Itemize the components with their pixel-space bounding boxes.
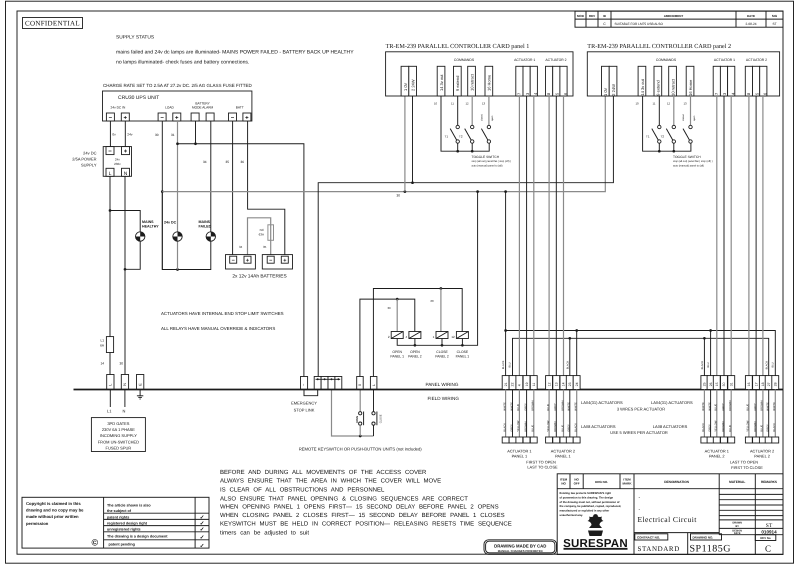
card2 pin 9 extend	[654, 66, 662, 96]
svg-text:PANEL 2: PANEL 2	[435, 355, 449, 359]
svg-text:BROWN: BROWN	[761, 400, 764, 410]
svg-text:CLOSE: CLOSE	[457, 350, 469, 354]
svg-text:HEALTHY: HEALTHY	[142, 225, 159, 229]
svg-text:LAST TO OPEN: LAST TO OPEN	[730, 460, 758, 465]
wire R4 coil bottom	[461, 339, 463, 346]
svg-text:L1: L1	[100, 339, 104, 343]
svg-text:GREY: GREY	[708, 424, 711, 432]
svg-text:12: 12	[451, 335, 455, 339]
svg-text:LAST TO CLOSE: LAST TO CLOSE	[527, 465, 558, 470]
svg-text:BLACK: BLACK	[702, 423, 705, 432]
svg-text:DRAWING MADE BY CAD: DRAWING MADE BY CAD	[494, 543, 546, 548]
lamp return rail left	[125, 241, 140, 269]
svg-text:BLU: BLU	[509, 362, 512, 367]
svg-text:36: 36	[241, 160, 245, 164]
svg-text:24v DC: 24v DC	[83, 151, 96, 156]
svg-text:✓: ✓	[200, 521, 205, 527]
svg-text:12: 12	[547, 382, 551, 386]
svg-text:DRG NO.: DRG NO.	[595, 480, 608, 484]
svg-text:24v DC IN: 24v DC IN	[111, 106, 126, 110]
svg-text:closed: closed	[682, 113, 685, 121]
svg-text:14 3v out: 14 3v out	[439, 74, 444, 91]
svg-text:WHITE: WHITE	[773, 402, 776, 411]
wire R3 coil top	[440, 289, 442, 332]
svg-text:Electrical Circuit: Electrical Circuit	[638, 515, 698, 524]
node LOAD- / 0V bus	[161, 190, 164, 193]
svg-text:2-08-24: 2-08-24	[746, 22, 757, 26]
svg-text:11: 11	[451, 102, 454, 106]
relay R4 CLOSE PANEL 1	[451, 332, 469, 359]
svg-text:WHITE: WHITE	[767, 402, 770, 411]
svg-text:−: −	[231, 116, 235, 122]
svg-text:30: 30	[120, 362, 124, 366]
incoming supply note box	[91, 418, 145, 452]
node R4 common	[461, 344, 464, 347]
svg-text:FROM UN-SWITCHED: FROM UN-SWITCHED	[98, 439, 139, 444]
earth symbol	[137, 390, 143, 400]
terminal group 1 field wires	[505, 390, 507, 438]
wire alarm2 down to lamp	[210, 121, 212, 232]
relay rail 2	[360, 299, 415, 376]
svg-text:MOD: MOD	[577, 14, 585, 18]
svg-text:13: 13	[555, 382, 559, 386]
node line2 feed on bus	[504, 190, 507, 193]
svg-text:STANDARD: STANDARD	[638, 545, 680, 553]
terminal group 2 connector	[546, 437, 553, 443]
card1 act1 pin 3	[523, 66, 530, 96]
svg-text:Copyright is claimed in this: Copyright is claimed in this	[26, 501, 81, 506]
svg-text:16 Home: 16 Home	[688, 79, 693, 96]
svg-text:PANEL 2: PANEL 2	[408, 355, 422, 359]
CAD stamp	[484, 540, 557, 555]
drawing no cell	[691, 534, 722, 540]
card1 pin 14 3v out	[437, 66, 445, 96]
svg-text:MAINS: MAINS	[142, 220, 154, 224]
svg-text:GREY: GREY	[510, 424, 513, 432]
svg-text:30: 30	[397, 194, 401, 198]
svg-text:BLACK: BLACK	[503, 423, 506, 432]
svg-text:WHEN OPENING PANEL 1 OPENS FIR: WHEN OPENING PANEL 1 OPENS FIRST— 15 SEC…	[220, 503, 499, 510]
terminal group 4 connector	[745, 437, 752, 443]
svg-text:+: +	[246, 258, 249, 264]
wire branch to mains-healthy lamp	[110, 211, 140, 232]
svg-text:L: L	[109, 171, 112, 177]
svg-text:34: 34	[239, 245, 243, 249]
svg-text:N: N	[123, 383, 127, 386]
wire BATT + down jog to battery	[248, 121, 285, 255]
node relay common on bus	[476, 190, 479, 193]
ES block jumper bar	[316, 378, 341, 380]
svg-text:CONTRACT NO.: CONTRACT NO.	[637, 536, 660, 540]
wire card1 24W	[412, 96, 414, 183]
svg-text:L1: L1	[107, 409, 112, 414]
svg-text:T1: T1	[445, 135, 449, 139]
svg-text:23: 23	[568, 382, 572, 386]
svg-text:FUSED SPUR: FUSED SPUR	[106, 446, 132, 451]
svg-text:ACTUATOR 2: ACTUATOR 2	[545, 58, 566, 62]
keyswitch terminal A	[357, 377, 364, 390]
svg-text:63A: 63A	[259, 233, 264, 237]
svg-text:22: 22	[511, 382, 515, 386]
svg-text:9 extend: 9 extend	[455, 76, 460, 91]
svg-text:17: 17	[754, 382, 758, 386]
svg-text:−: −	[109, 116, 113, 122]
card2 act1 pin 4	[728, 66, 736, 96]
svg-text:BLACK: BLACK	[575, 423, 578, 432]
svg-text:11: 11	[653, 102, 656, 106]
svg-text:GREY: GREY	[524, 403, 527, 411]
keyswitch terminal B	[370, 377, 377, 390]
card1 act1 pin 7	[516, 66, 523, 96]
lamp H1 MAINS HEALTHY	[136, 220, 160, 241]
svg-text:OFF: OFF	[574, 482, 580, 486]
card1 pin 2 24W	[409, 66, 417, 96]
node alarm1	[194, 142, 197, 145]
svg-text:12: 12	[667, 102, 671, 106]
svg-text:COMMANDS: COMMANDS	[656, 58, 677, 62]
node line1 group2	[575, 329, 578, 332]
card2 pin 10 retract	[669, 66, 677, 96]
svg-text:OPEN: OPEN	[392, 350, 402, 354]
node N at lamp return	[124, 268, 127, 271]
svg-text:BLACK: BLACK	[566, 361, 569, 370]
node line2 group2	[568, 337, 571, 340]
card2 pin 2 24W	[609, 66, 617, 96]
node card1 24W on bus	[411, 181, 414, 184]
svg-text:MANUAL CHANGES PROHIBITED: MANUAL CHANGES PROHIBITED	[498, 549, 543, 553]
actuator wires card2 act2	[748, 96, 750, 377]
svg-text:11: 11	[532, 383, 536, 387]
svg-text:the company, be published, cop: the company, be published, copied, repro…	[560, 505, 622, 508]
PSU terminal N	[122, 168, 130, 177]
relay R3 CLOSE PANEL 2	[433, 332, 449, 359]
svg-text:14: 14	[562, 382, 566, 386]
safety paragraph	[220, 469, 512, 537]
svg-text:SUPPLY STATUS: SUPPLY STATUS	[116, 35, 154, 41]
keyswitch KS2	[372, 390, 383, 437]
L1 fuse F1	[106, 337, 113, 353]
svg-text:of possession to this drawing.: of possession to this drawing. The desig…	[560, 496, 614, 499]
wire LOAD - down	[161, 121, 163, 270]
svg-text:IS CLEAR OF ALL OBSTRUCTIONS A: IS CLEAR OF ALL OBSTRUCTIONS AND PERSONN…	[220, 486, 385, 493]
svg-text:10 retract: 10 retract	[670, 78, 675, 96]
svg-text:WHITE: WHITE	[568, 402, 571, 411]
svg-text:The article shown is also: The article shown is also	[107, 504, 151, 508]
terminal group 2 field wires	[548, 390, 550, 438]
svg-text:10: 10	[636, 102, 640, 106]
svg-text:3 WIRES PER ACTUATOR: 3 WIRES PER ACTUATOR	[617, 407, 665, 412]
svg-text:−: −	[269, 258, 272, 264]
svg-text:PANEL 2: PANEL 2	[709, 453, 725, 458]
svg-text:timers can be adjusted to suit: timers can be adjusted to suit	[220, 530, 309, 537]
terminal group 3 connector	[701, 437, 708, 443]
svg-text:BLACK: BLACK	[701, 361, 704, 370]
svg-text:230V 6A 1 PHASE: 230V 6A 1 PHASE	[102, 427, 135, 432]
wire L fuse to terminal	[109, 353, 111, 375]
svg-text:39: 39	[388, 306, 392, 310]
svg-text:25: 25	[703, 382, 707, 386]
actuator wires card2 act1	[716, 96, 718, 377]
svg-text:15: 15	[715, 382, 719, 386]
PSU terminal L	[106, 168, 114, 177]
svg-text:−: −	[108, 149, 112, 155]
svg-text:REV: REV	[589, 14, 595, 18]
card1 act2 pin 6	[560, 66, 568, 96]
card1 pin 9 extend	[454, 66, 462, 96]
svg-text:18: 18	[761, 382, 765, 386]
node keyswitch return	[359, 435, 362, 438]
svg-text:no lamps illuminated- check fu: no lamps illuminated- check fuses and ba…	[116, 60, 249, 66]
svg-text:TR-EM-239 PARALLEL CONTROLLER: TR-EM-239 PARALLEL CONTROLLER CARD panel…	[587, 43, 731, 50]
svg-text:DATE: DATE	[734, 532, 741, 535]
svg-text:YELLOW: YELLOW	[517, 420, 520, 432]
svg-text:ACTUATOR 1: ACTUATOR 1	[514, 58, 535, 62]
svg-text:1 0V: 1 0V	[603, 87, 608, 96]
svg-text:CLOSE: CLOSE	[436, 350, 448, 354]
svg-text:REMOTE KEYSWITCH OR PUSH-BUTTO: REMOTE KEYSWITCH OR PUSH-BUTTON UNITS (n…	[299, 446, 423, 451]
rev no cell	[755, 535, 776, 541]
svg-text:the subject of: the subject of	[107, 509, 132, 513]
svg-text:OPEN: OPEN	[356, 416, 359, 423]
svg-text:made without prior written: made without prior written	[26, 514, 79, 519]
svg-text:16 Home: 16 Home	[487, 74, 492, 91]
svg-text:34: 34	[203, 160, 207, 164]
svg-text:✓: ✓	[200, 535, 205, 541]
svg-text:WHITE: WHITE	[702, 402, 705, 411]
svg-text:PANEL 1: PANEL 1	[390, 355, 404, 359]
svg-text:PANEL 1: PANEL 1	[512, 453, 528, 458]
wire UPS in + to PSU	[124, 121, 126, 147]
svg-text:BROWN: BROWN	[729, 400, 732, 410]
svg-text:EMERGENCY: EMERGENCY	[291, 401, 317, 406]
svg-text:ALL RELAYS HAVE MANUAL OVERRID: ALL RELAYS HAVE MANUAL OVERRIDE & INDICA…	[161, 326, 275, 331]
relay common rail	[397, 192, 477, 346]
node L branch to lamp	[109, 209, 112, 212]
wire N down to terminal	[124, 176, 126, 374]
UPS terminal 24vDCin +	[121, 113, 129, 122]
node ES t1	[317, 378, 319, 380]
terminal group 3 number boxes	[701, 376, 708, 390]
wire L down to fuse	[109, 176, 111, 336]
svg-text:14 3v out: 14 3v out	[640, 78, 645, 95]
svg-text:TOGGLE SWITCH: TOGGLE SWITCH	[673, 155, 701, 159]
svg-text:YELLOW: YELLOW	[715, 420, 718, 432]
card1 act2 pin 5	[553, 66, 560, 96]
toggle1 switch T2	[465, 96, 474, 151]
svg-text:BLUE: BLUE	[547, 404, 550, 411]
svg-text:INCOMING SUPPLY: INCOMING SUPPLY	[100, 433, 137, 438]
svg-text:FIRST TO CLOSE: FIRST TO CLOSE	[731, 465, 763, 470]
toggle switch card2 common wire	[643, 96, 691, 151]
svg-text:STOP LINK: STOP LINK	[294, 408, 315, 413]
svg-text:9 extend: 9 extend	[656, 80, 661, 95]
lamp H3 MAINS FAILED	[199, 220, 216, 241]
svg-text:patent rights: patent rights	[107, 515, 129, 519]
svg-text:GREY: GREY	[554, 403, 557, 411]
lamp return rail right	[162, 192, 211, 270]
cross-link line2 horizontal	[513, 338, 769, 376]
toggle2 switch T3	[683, 96, 692, 143]
svg-text:−: −	[232, 258, 235, 264]
svg-text:16: 16	[747, 382, 751, 386]
svg-text:13: 13	[684, 102, 688, 106]
svg-text:LA08 ACTUATORS: LA08 ACTUATORS	[653, 424, 688, 429]
svg-text:230v: 230v	[114, 162, 121, 166]
svg-text:SUITABLE FOR LM75 USB ALSO: SUITABLE FOR LM75 USB ALSO	[615, 22, 664, 26]
24v bus (black)	[318, 96, 613, 377]
node line2 group3	[703, 337, 706, 340]
svg-text:registered design right: registered design right	[107, 522, 148, 526]
svg-text:closed: closed	[480, 113, 483, 121]
wire BATT - down to battery	[232, 121, 234, 255]
svg-text:26: 26	[709, 382, 713, 386]
svg-text:drawing and no copy may be: drawing and no copy may be	[26, 508, 84, 513]
svg-text:CONFIDENTIAL: CONFIDENTIAL	[25, 20, 80, 28]
svg-text:14: 14	[101, 362, 105, 366]
card1 pin 1 0V	[401, 66, 409, 96]
supply status note	[116, 35, 354, 66]
svg-text:C: C	[765, 544, 771, 554]
svg-text:ACTUATORS HAVE INTERNAL END ST: ACTUATORS HAVE INTERNAL END STOP LIMIT S…	[161, 311, 284, 316]
svg-text:BROWN: BROWN	[524, 421, 527, 431]
title block copyright text	[560, 492, 622, 517]
toggle switch card1 common wire	[441, 96, 489, 151]
terminal group 4 number boxes	[745, 376, 752, 390]
svg-text:auto (manual) panel to (all): auto (manual) panel to (all)	[472, 164, 503, 167]
svg-text:010914: 010914	[761, 530, 777, 535]
svg-text:27: 27	[767, 382, 771, 386]
svg-text:unauthorised way.: unauthorised way.	[560, 514, 584, 517]
svg-text:open: open	[693, 115, 696, 121]
svg-text:DATE: DATE	[747, 14, 755, 18]
terminal group 1 number boxes	[502, 376, 509, 390]
svg-text:REMARKS: REMARKS	[761, 480, 777, 484]
UPS terminal LOAD -	[158, 113, 166, 122]
relay rail 1	[373, 289, 462, 377]
incoming terminal N	[121, 375, 128, 390]
wire card1 0V	[404, 96, 406, 192]
svg-text:PANEL 1: PANEL 1	[456, 355, 470, 359]
svg-text:The drawing is a design docume: The drawing is a design document	[107, 535, 168, 539]
svg-text:AMENDMENT: AMENDMENT	[664, 14, 684, 18]
toggle1 switch T1	[450, 96, 459, 151]
title block	[557, 474, 783, 555]
fuse F2 battery fuse	[268, 225, 274, 241]
svg-text:BROWN: BROWN	[554, 421, 557, 431]
wire UPS in - to PSU	[109, 121, 111, 147]
svg-text:4: 4	[518, 384, 522, 386]
svg-text:MARK: MARK	[623, 482, 633, 486]
svg-text:patent pending: patent pending	[109, 543, 135, 547]
card1 act2 pin 8	[546, 66, 553, 96]
terminal group 4 field wires	[748, 390, 750, 438]
svg-text:FAILED: FAILED	[199, 225, 212, 229]
wire R2 coil bottom	[414, 339, 416, 346]
svg-text:GREY: GREY	[767, 424, 770, 432]
svg-text:13: 13	[482, 102, 486, 106]
keyswitch return rail	[332, 390, 374, 437]
node rail2 R1	[396, 298, 399, 301]
svg-text:REV No: REV No	[760, 536, 771, 540]
svg-text:CRU30 UPS UNIT: CRU30 UPS UNIT	[118, 95, 159, 101]
svg-text:BLUE: BLUE	[761, 425, 764, 432]
svg-text:LA04(31) ACTUATORS: LA04(31) ACTUATORS	[651, 400, 693, 405]
svg-text:3PD GATES: 3PD GATES	[107, 421, 129, 426]
svg-text:TR-EM-239 PARALLEL CONTROLLER: TR-EM-239 PARALLEL CONTROLLER CARD panel…	[386, 43, 530, 50]
keyswitch KS1	[356, 390, 363, 437]
terminal group 3 field wires	[703, 390, 705, 438]
wire lamp2 bottom	[177, 241, 179, 269]
relay R2 OPEN PANEL 2	[406, 332, 422, 359]
svg-text:SUPPLY: SUPPLY	[81, 163, 97, 168]
svg-text:E: E	[138, 383, 142, 386]
wire R1 coil top	[396, 299, 398, 331]
svg-text:BLACK: BLACK	[502, 360, 505, 369]
UPS terminal BATT -	[229, 113, 237, 122]
svg-text:GREY: GREY	[754, 403, 757, 411]
node ES t2	[324, 378, 326, 380]
UPS terminal alarm 1	[191, 113, 199, 121]
wire R3 coil bottom	[441, 339, 443, 346]
svg-text:2/5A POWER: 2/5A POWER	[72, 157, 96, 162]
node toggle1 sw2	[471, 150, 474, 153]
svg-text:LA08 ACTUATORS: LA08 ACTUATORS	[581, 424, 616, 429]
node rail1 R3	[440, 287, 443, 290]
svg-text:ALSO ENSURE THAT PANEL OPENING: ALSO ENSURE THAT PANEL OPENING & CLOSING…	[220, 495, 468, 502]
svg-text:BY: BY	[735, 525, 739, 528]
svg-text:BLUE: BLUE	[517, 404, 520, 411]
card1 pin 10 retract	[468, 66, 476, 96]
panel/field wiring separator	[74, 389, 784, 391]
lamp H2 24v DC	[164, 221, 182, 242]
card2 act2 pin 8	[745, 66, 752, 96]
wire line1 to group2	[576, 331, 578, 377]
svg-text:COMMANDS: COMMANDS	[454, 58, 475, 62]
card2 pin 1 0V	[602, 66, 610, 96]
svg-text:MATERIAL: MATERIAL	[729, 480, 745, 484]
card2 pin 16 Home	[686, 66, 694, 96]
node line1 group3	[709, 329, 712, 332]
svg-text:T2: T2	[661, 135, 665, 139]
toggle1 switch T3	[481, 96, 490, 143]
svg-text:30: 30	[722, 382, 726, 386]
svg-text:BROWN: BROWN	[532, 400, 535, 410]
svg-text:+: +	[245, 116, 249, 122]
svg-text:L: L	[372, 384, 376, 386]
terminal group 2 number boxes	[546, 376, 553, 390]
wire N below line	[124, 390, 126, 408]
incoming terminal E	[137, 375, 144, 390]
svg-text:2 24W: 2 24W	[611, 84, 616, 96]
svg-text:permission: permission	[26, 521, 49, 526]
svg-text:stop (all out) panel flat ( st: stop (all out) panel flat ( stop (off) )	[472, 160, 512, 163]
svg-text:21: 21	[504, 382, 508, 386]
svg-text:ALWAYS ENSURE THAT THE AREA IN: ALWAYS ENSURE THAT THE AREA IN WHICH THE…	[220, 478, 441, 485]
svg-text:BLUE: BLUE	[715, 404, 718, 411]
svg-text:BLU: BLU	[707, 362, 710, 367]
svg-text:OPEN: OPEN	[410, 350, 420, 354]
svg-text:BLUE: BLUE	[747, 404, 750, 411]
actuator wires card1 act2	[548, 96, 550, 377]
svg-text:TOGGLE SWITCH: TOGGLE SWITCH	[472, 155, 500, 159]
controller card U3 panel 2	[587, 43, 779, 96]
UPS terminal BATT +	[243, 113, 251, 122]
wire LOAD + down to lamp	[177, 121, 179, 232]
svg-text:ST: ST	[766, 523, 773, 529]
svg-text:FIELD WIRING: FIELD WIRING	[428, 396, 460, 401]
svg-text:ACTUATOR 1: ACTUATOR 1	[714, 58, 735, 62]
svg-text:31: 31	[171, 133, 175, 137]
